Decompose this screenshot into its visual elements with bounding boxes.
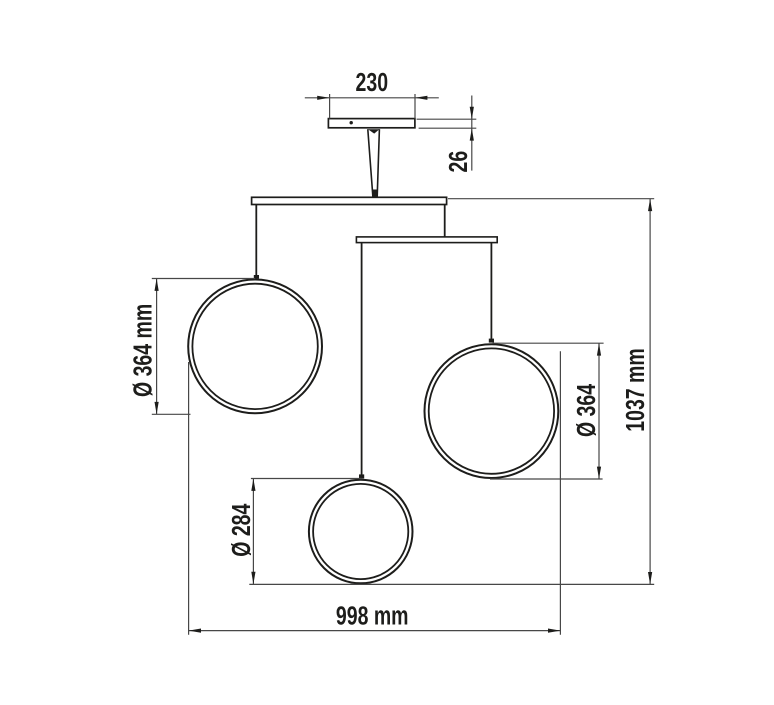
dim 284: top arrow xyxy=(251,479,255,491)
right ring inner circle xyxy=(429,348,554,473)
dim 230: left arrow xyxy=(317,96,329,100)
bottom ring outer circle xyxy=(309,480,413,584)
dim 364 right: top extension line xyxy=(492,342,603,344)
bottom ring connector xyxy=(359,474,364,478)
dim 1037: top arrow xyxy=(648,199,652,211)
stem bottom dark wedge xyxy=(372,190,377,198)
left ring inner circle xyxy=(192,284,317,409)
dim 364 right: bottom arrow xyxy=(597,467,601,479)
dim 364 right: dimension line xyxy=(598,343,600,479)
canopy (ceiling plate) xyxy=(328,119,415,128)
stem wire from canopy to bar1 xyxy=(368,129,380,197)
dim 998: left extension line xyxy=(188,362,190,635)
dim 1037: top extension line xyxy=(448,198,654,200)
left ring connector xyxy=(254,275,259,279)
dim 364 left: bottom arrow xyxy=(155,402,159,414)
right ring connector xyxy=(489,339,494,343)
dim 26: dimension line xyxy=(471,96,473,171)
left ring outer circle xyxy=(188,280,322,414)
wire to right ring xyxy=(490,243,492,339)
svg-text:Ø 284: Ø 284 xyxy=(226,503,255,556)
dim 364 right: bottom extension line xyxy=(490,478,603,480)
svg-text:Ø 364 mm: Ø 364 mm xyxy=(128,304,157,397)
bar2 (lower suspension bar) xyxy=(356,237,497,243)
dim 998: left arrow xyxy=(189,629,201,633)
dim 998: right arrow xyxy=(548,629,560,633)
dim 230: right extension line xyxy=(414,94,416,119)
bottom ring inner circle xyxy=(313,484,408,579)
dim 364 left: dimension line xyxy=(156,279,158,415)
shared bottom extension line (284 bottom / 1037 bottom) xyxy=(249,583,654,585)
svg-text:1037 mm: 1037 mm xyxy=(620,348,649,431)
right ring outer circle xyxy=(425,344,559,478)
svg-text:998 mm: 998 mm xyxy=(336,601,409,630)
bar1 (upper suspension bar) xyxy=(252,197,447,204)
dim 998: right extension line xyxy=(559,351,561,634)
dim 1037: bottom arrow xyxy=(648,572,652,584)
stem top dark wedge xyxy=(368,129,379,133)
dim 26: top extension line xyxy=(417,118,477,120)
dim 364 left: top extension line xyxy=(152,278,255,280)
wire from bar1 to bar2 xyxy=(444,205,446,237)
dim 284: bottom arrow xyxy=(251,572,255,584)
canopy screw dot xyxy=(350,121,353,124)
dim 364 left: top arrow xyxy=(155,279,159,291)
dim 230: dimension line xyxy=(305,97,439,99)
wire to left ring xyxy=(255,205,257,276)
dim 364 left: bottom extension line xyxy=(152,413,191,415)
dim 364 right: top arrow xyxy=(597,343,601,355)
svg-text:26: 26 xyxy=(443,151,472,173)
dim 26: bottom arrow xyxy=(470,128,474,140)
wire to bottom ring xyxy=(361,243,363,475)
dim 284: dimension line xyxy=(252,479,254,585)
dim 998: dimension line xyxy=(189,630,561,632)
dim 230: left extension line xyxy=(329,94,331,119)
dim 230: right arrow xyxy=(415,96,427,100)
dim 284: top extension line xyxy=(251,478,363,480)
dim 1037: dimension line xyxy=(649,199,651,585)
svg-text:Ø 364: Ø 364 xyxy=(571,384,600,437)
dim 26: top arrow xyxy=(470,107,474,119)
dim 26: bottom extension line xyxy=(419,127,477,129)
svg-text:230: 230 xyxy=(356,67,389,96)
